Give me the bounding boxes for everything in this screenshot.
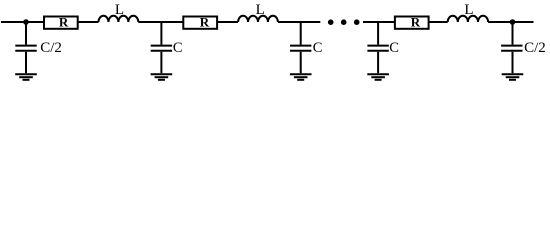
ground for C3	[290, 74, 312, 80]
wire R2 to L2	[217, 21, 238, 23]
inductor L1	[99, 16, 139, 22]
capacitor C5 (C/2) plates	[501, 46, 522, 51]
label C for C4	[389, 40, 399, 56]
resistor R3	[395, 15, 429, 30]
resistor R2	[183, 15, 217, 30]
label L for L1	[115, 2, 124, 18]
ellipsis dot 2	[341, 19, 347, 25]
ground for C4	[367, 74, 389, 80]
wire C1 to ground	[25, 52, 27, 73]
label C for C2	[173, 40, 183, 56]
svg-text:R: R	[411, 15, 421, 30]
wire L1 through node B to R2	[138, 21, 183, 23]
inductor L2	[238, 16, 278, 22]
resistor R1	[44, 15, 78, 30]
wire node E down to C5	[512, 22, 514, 45]
wire C5 to ground	[512, 52, 514, 73]
wire L3 through node E to right end	[488, 21, 533, 23]
label L for L2	[256, 2, 265, 18]
svg-text:C/2: C/2	[40, 40, 62, 56]
svg-text:L: L	[115, 2, 124, 18]
wire C3 to ground	[300, 52, 302, 73]
ellipsis dot 1	[328, 19, 334, 25]
wire R3 to L3	[429, 21, 448, 23]
ground for C2	[151, 74, 173, 80]
capacitor C2 plates	[151, 46, 172, 51]
svg-text:R: R	[200, 15, 210, 30]
svg-text:L: L	[464, 2, 473, 18]
wire C2 to ground	[160, 52, 162, 73]
node E junction dot	[510, 19, 516, 25]
svg-text:C: C	[173, 40, 183, 56]
wire left feed to R1	[1, 21, 44, 23]
capacitor C4 plates	[367, 46, 388, 51]
wire node B down to C2	[160, 22, 162, 45]
wire C4 to ground	[377, 52, 379, 73]
node A junction dot	[23, 19, 29, 25]
label L for L3	[464, 2, 473, 18]
ground for C5	[502, 74, 524, 80]
label C/2 for C5	[524, 40, 546, 56]
wire node A down to C1	[25, 22, 27, 45]
svg-text:C/2: C/2	[524, 40, 546, 56]
ground for C1	[15, 74, 37, 80]
svg-text:L: L	[256, 2, 265, 18]
wire node D down to C4	[377, 22, 379, 45]
inductor L3	[448, 16, 488, 22]
svg-text:C: C	[313, 40, 323, 56]
wire node C down to C3	[300, 22, 302, 45]
label C/2 for C1	[40, 40, 62, 56]
wire R1 to L1	[78, 21, 99, 23]
svg-text:C: C	[389, 40, 399, 56]
capacitor C1 (C/2) plates	[15, 46, 36, 51]
label C for C3	[313, 40, 323, 56]
capacitor C3 plates	[290, 46, 311, 51]
ellipsis dot 3	[354, 19, 360, 25]
wire L2 through node C to ellipsis	[278, 21, 320, 23]
wire ellipsis through node D to R3	[363, 21, 395, 23]
svg-text:R: R	[59, 15, 69, 30]
